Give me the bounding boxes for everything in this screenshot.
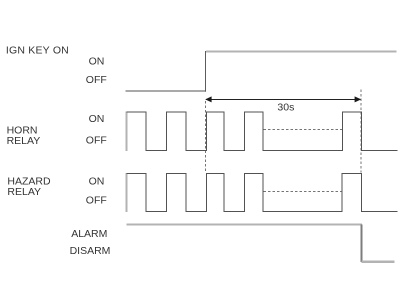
wire: IGN KEY rising edge — [205, 51, 207, 92]
wire: alarm falling edge — [361, 225, 363, 263]
wire: IGN KEY OFF level segment — [126, 90, 207, 92]
svg-text:ALARM: ALARM — [71, 228, 107, 240]
wire: horn relay first rising edge (gray) — [126, 112, 128, 152]
svg-text:RELAY: RELAY — [7, 135, 41, 147]
dimension arrow line 30s — [206, 99, 361, 101]
dashed vertical at 30s start — [205, 101, 207, 173]
svg-text:OFF: OFF — [86, 74, 107, 86]
svg-text:ON: ON — [89, 176, 105, 188]
arrowhead left — [205, 96, 211, 102]
wire: hazard relay pulse waveform — [127, 174, 398, 212]
svg-text:IGN KEY ON: IGN KEY ON — [6, 45, 69, 57]
wire: alarm level segment — [127, 223, 363, 225]
svg-text:30s: 30s — [277, 101, 294, 113]
svg-text:OFF: OFF — [86, 135, 107, 147]
wire: IGN KEY ON level segment — [206, 50, 397, 52]
dashed continuation line (horn) — [264, 129, 343, 131]
svg-text:ON: ON — [89, 56, 105, 68]
wire: disarm level segment — [362, 261, 395, 263]
svg-text:RELAY: RELAY — [7, 186, 41, 198]
svg-text:DISARM: DISARM — [70, 245, 111, 257]
arrowhead right — [355, 96, 362, 102]
dashed vertical at 30s end — [360, 90, 362, 173]
svg-text:OFF: OFF — [86, 195, 107, 207]
wire: hazard relay first rising edge (gray) — [126, 173, 128, 212]
svg-text:ON: ON — [89, 113, 105, 125]
wire: horn relay pulse waveform — [127, 112, 398, 151]
dashed continuation line (hazard) — [264, 191, 342, 193]
